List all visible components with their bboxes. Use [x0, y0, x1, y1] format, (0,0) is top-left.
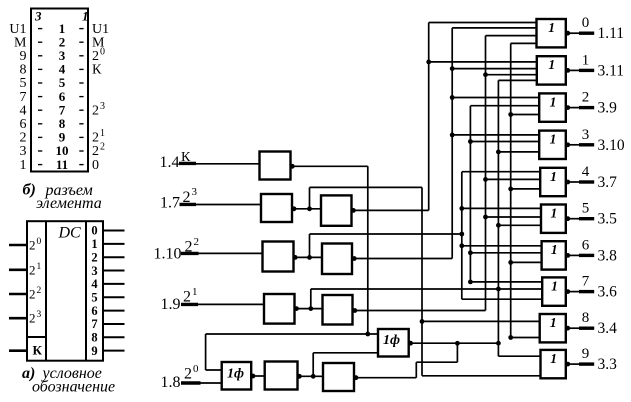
svg-text:3: 3	[37, 310, 42, 320]
svg-text:1: 1	[91, 237, 97, 251]
junction VA to gate G8 line	[420, 319, 425, 324]
svg-text:3.9: 3.9	[598, 100, 618, 117]
svg-text:9: 9	[582, 346, 590, 362]
wire V2 top to gate G0 input 2	[452, 27, 536, 29]
input K stub	[179, 162, 196, 165]
junction K-not onto bottom K line	[365, 332, 370, 337]
junction V4 gate G2	[508, 112, 513, 117]
wire C2 output to bus V2	[352, 258, 452, 260]
svg-text:1: 1	[192, 286, 198, 298]
wire V5 to gate G5 input 3	[498, 224, 541, 226]
wire V7 to gate G5 input 1	[462, 207, 541, 209]
gate F 1f	[378, 329, 409, 357]
svg-text:обозначение: обозначение	[32, 379, 115, 396]
svg-text:1: 1	[582, 52, 590, 68]
svg-text:2: 2	[29, 287, 36, 302]
svg-text:1: 1	[550, 169, 557, 184]
E2 output dot	[297, 374, 302, 379]
output 5 stub	[579, 217, 594, 220]
wire V7 bottom to gate G7 input 3	[462, 298, 542, 300]
DC input 2^3 stub	[9, 317, 27, 320]
svg-text:5: 5	[91, 290, 97, 304]
junction D1 out riser	[308, 306, 313, 311]
bus V7 vertical	[461, 172, 463, 300]
inverter D1 (2^1)	[264, 294, 295, 324]
junction V2 gate G3	[450, 133, 455, 138]
wire V4 to gate G6 input 3	[511, 261, 542, 263]
wire G6 output	[570, 254, 579, 256]
wire V4 top to gate G0 input 4	[511, 42, 537, 44]
output 2 stub	[579, 106, 594, 109]
wire B2 output to bus VB	[352, 209, 429, 211]
inverter B1 (2^3)	[261, 194, 292, 222]
wire V2 to gate G1 input 2	[452, 68, 537, 70]
svg-text:1: 1	[550, 315, 557, 330]
wire 2^1 input to D1	[198, 303, 264, 305]
svg-text:1.4: 1.4	[160, 154, 180, 171]
G1 output inversion dot	[565, 68, 570, 73]
svg-text:К: К	[33, 343, 43, 358]
junction V6 gate G3	[468, 139, 473, 144]
gate G8 (output 8)	[540, 314, 566, 342]
wire G1 output	[570, 69, 579, 71]
wire V3 to gate G1 input 3	[486, 74, 537, 76]
svg-text:3.3: 3.3	[598, 356, 618, 373]
svg-text:5: 5	[582, 201, 590, 217]
svg-text:4: 4	[582, 164, 590, 180]
svg-text:1: 1	[550, 351, 557, 366]
input 2^1 stub	[181, 303, 198, 306]
svg-text:1: 1	[551, 206, 558, 221]
junction V3 gate G5	[483, 215, 488, 220]
G3 output inversion dot	[565, 142, 570, 147]
wire E3 net riser 2	[456, 343, 458, 362]
svg-text:1.9: 1.9	[161, 296, 181, 313]
svg-text:2: 2	[184, 366, 192, 383]
svg-text:1: 1	[548, 20, 555, 35]
svg-text:3.10: 3.10	[598, 137, 625, 154]
B2 output dot	[351, 208, 356, 213]
junction V5 gate G3	[496, 150, 501, 155]
svg-text:0: 0	[91, 224, 97, 238]
junction on 2-1-not line at V5	[496, 287, 501, 292]
svg-text:1: 1	[551, 278, 558, 293]
inverter A1 (K)	[260, 152, 291, 180]
svg-text:7: 7	[582, 274, 590, 290]
bus VB vertical (2^3)	[428, 23, 430, 211]
svg-text:8: 8	[582, 310, 590, 326]
wire K line into E1 input 1	[206, 369, 222, 371]
output 8 stub	[579, 327, 594, 330]
wire G4 output	[570, 181, 579, 183]
wire E3 output run right	[354, 377, 416, 379]
svg-text:3: 3	[100, 101, 105, 112]
svg-text:1: 1	[550, 132, 557, 147]
inverter E3 (2^0 buffer)	[323, 363, 354, 391]
svg-text:1: 1	[82, 9, 89, 24]
gate G6 (output 6)	[542, 241, 566, 269]
G8 output inversion dot	[565, 326, 570, 331]
svg-text:1.8: 1.8	[161, 374, 181, 391]
G6 output inversion dot	[565, 253, 570, 258]
wire D1 output to D2	[295, 308, 323, 310]
DC input 2^0 stub	[9, 244, 27, 247]
E1 output dot	[251, 374, 256, 379]
svg-text:б): б)	[23, 182, 36, 199]
output 1 stub	[579, 69, 594, 72]
svg-text:1: 1	[20, 158, 27, 173]
wire V5 top to gate G1 input 4	[498, 79, 536, 81]
input 2^3 stub	[180, 203, 197, 206]
G2 output inversion dot	[565, 105, 570, 110]
wire E2 output to E3	[298, 375, 324, 377]
wire V6 to gate G6 input 2	[470, 252, 541, 254]
wire F output line to V5	[409, 342, 499, 344]
inverter E2 (2^0)	[265, 362, 298, 390]
svg-text:3.7: 3.7	[598, 174, 618, 191]
wire VB top to gate G0 input 1	[429, 22, 537, 24]
wire A1 output to K vertical	[291, 165, 368, 167]
wire 2-3-not riser	[309, 187, 311, 208]
wire V2 to gate G2 input 1	[452, 97, 539, 99]
wire V4 end to gate G8 input 2	[511, 337, 540, 339]
svg-text:3.5: 3.5	[598, 211, 618, 228]
svg-text:3: 3	[34, 9, 42, 24]
wire G5 output	[570, 218, 579, 220]
wire V3 top to gate G0 input 3	[486, 35, 537, 37]
B1 output dot	[292, 206, 297, 211]
junction 2-2-not onto V7	[459, 232, 464, 237]
bus V6 vertical	[469, 106, 471, 282]
wire V5 bottom to gate G9 input 1	[498, 355, 540, 357]
G4 output inversion dot	[565, 180, 570, 185]
bus V4 vertical	[510, 43, 512, 337]
gate G0 (output 0)	[537, 19, 566, 47]
svg-text:2: 2	[92, 103, 99, 118]
svg-text:3.4: 3.4	[598, 320, 618, 337]
gate G7 (output 7)	[542, 277, 566, 305]
wire E3 net jog right	[416, 361, 457, 363]
junction V3 gate G1	[483, 72, 488, 77]
DC right column divider	[85, 221, 87, 361]
inverter C1 (2^2)	[263, 242, 294, 272]
wire 2-1-not line to gate G7 input 2	[311, 288, 542, 290]
svg-text:1: 1	[100, 128, 105, 139]
svg-text:1.10: 1.10	[154, 246, 182, 263]
svg-text:9: 9	[91, 344, 97, 358]
junction V2 gate G1	[450, 66, 455, 71]
wire G7 output	[570, 291, 579, 293]
junction E2 out riser	[311, 374, 316, 379]
output 7 stub	[579, 290, 594, 293]
DC input 2^1 stub	[9, 268, 27, 271]
svg-text:7: 7	[91, 317, 97, 331]
wire G0 output	[570, 32, 579, 34]
svg-text:2: 2	[29, 238, 36, 253]
wire G2 output	[570, 107, 579, 109]
svg-text:3.8: 3.8	[598, 247, 618, 264]
inverter B2 (2^3 buffer)	[321, 195, 352, 225]
wire V7 to gate G6 input 1	[462, 245, 542, 247]
G7 output inversion dot	[565, 289, 570, 294]
junction V7 gate G5	[459, 206, 464, 211]
wire V4 to gate G4 input 3	[511, 188, 541, 190]
svg-text:0: 0	[193, 363, 199, 375]
wire V2 to gate G3 input 1	[452, 134, 539, 136]
svg-text:6: 6	[91, 304, 97, 318]
wire B1 output to B2	[292, 208, 321, 210]
junction V4 end gate G8	[508, 335, 513, 340]
wire V6 top to gate G2 input 2	[470, 105, 539, 107]
svg-text:1: 1	[550, 94, 557, 109]
junction V2 gate G2	[450, 95, 455, 100]
svg-text:1.7: 1.7	[160, 195, 180, 212]
G9 output inversion dot	[565, 362, 570, 367]
wire K line left corner vertical	[205, 334, 207, 370]
output 4 stub	[579, 180, 594, 183]
input 2^0 stub	[181, 381, 201, 384]
svg-text:2: 2	[29, 262, 36, 277]
junction E3 net onto F output line	[455, 341, 460, 346]
svg-text:8: 8	[91, 331, 97, 345]
wire V7 top to gate G4 input 1	[462, 171, 540, 173]
svg-text:2: 2	[91, 250, 97, 264]
wire V5 to gate G3 input 3	[498, 151, 539, 153]
junction V4 gate G4	[508, 187, 513, 192]
gate G1 (output 1)	[537, 56, 566, 84]
K compartment divider	[27, 336, 46, 338]
F output dot	[408, 341, 413, 346]
svg-text:К: К	[92, 63, 102, 78]
svg-text:0: 0	[37, 237, 42, 247]
wire V4 to gate G2 input 3	[511, 114, 540, 116]
wire G9 output	[570, 363, 579, 365]
A1 output dot	[290, 164, 295, 169]
gate G4 (output 4)	[540, 168, 566, 196]
D1 output dot	[294, 306, 299, 311]
wire 2-0 line to F input 2	[313, 352, 378, 354]
wire V6 end to gate G7 input 1	[470, 281, 542, 283]
gate E1 1f (K,2^0)	[222, 362, 252, 390]
wire V6 to gate G3 input 2	[470, 141, 539, 143]
junction V3 gate G4	[483, 177, 488, 182]
DC left column divider	[45, 221, 47, 361]
wire E3 net riser	[415, 362, 417, 378]
bus VA vertical (2-3-not)	[421, 187, 423, 375]
svg-text:1: 1	[548, 57, 555, 72]
junction V7 gate G6	[459, 243, 464, 248]
pin table border	[31, 9, 88, 172]
wire K input to inverter A1	[196, 163, 260, 165]
wire 2-3-not line to bus VA	[310, 186, 423, 188]
E3 output dot	[354, 375, 359, 380]
G5 output inversion dot	[565, 216, 570, 221]
wire 2^3 input to B1	[196, 204, 261, 206]
svg-text:11: 11	[56, 157, 68, 172]
wire 2^0 input to E1	[201, 382, 222, 384]
svg-text:DC: DC	[58, 225, 82, 242]
svg-text:1: 1	[37, 262, 42, 272]
gate G9 (output 9)	[541, 350, 566, 378]
svg-text:3: 3	[192, 186, 198, 198]
output 0 stub	[579, 32, 594, 35]
inverter C2 (2^2 buffer)	[322, 244, 352, 275]
output 6 stub	[579, 254, 594, 257]
output 3 stub	[579, 143, 594, 146]
junction V4 gate G6	[508, 260, 513, 265]
junction F line onto V5	[496, 341, 501, 346]
svg-text:1ф: 1ф	[383, 333, 400, 348]
junction VB gate G1	[426, 60, 431, 65]
D2 output dot	[352, 308, 357, 313]
svg-text:3: 3	[582, 127, 590, 143]
bus V5 vertical	[497, 80, 499, 356]
gate G3 (output 3)	[539, 131, 566, 159]
DC input K stub	[9, 349, 27, 352]
DC input 2^2 stub	[9, 293, 27, 296]
wire 2-2-not line to bus V7	[310, 233, 462, 235]
wire 2-1-not riser	[310, 289, 312, 309]
junction V5 gate G5	[496, 223, 501, 228]
svg-text:2: 2	[194, 236, 200, 248]
wire 2^2 input to C1	[199, 252, 263, 254]
output 9 stub	[579, 362, 594, 365]
bus V3 vertical	[485, 36, 487, 311]
svg-text:6: 6	[582, 237, 590, 253]
wire D2 output to bus V3 bottom	[353, 310, 486, 312]
svg-text:2: 2	[29, 311, 36, 326]
wire K bottom line	[206, 333, 378, 335]
svg-text:2: 2	[582, 90, 590, 106]
inverter D2 (2^1 buffer)	[323, 295, 353, 325]
junction V6 gate G6	[468, 250, 473, 255]
wire G3 output	[570, 144, 579, 146]
junction C1 out riser	[307, 255, 312, 260]
svg-text:0: 0	[582, 15, 590, 31]
svg-text:0: 0	[100, 47, 105, 58]
svg-text:1ф: 1ф	[227, 367, 244, 382]
C1 output dot	[293, 255, 298, 260]
wire 2-2-not riser	[309, 234, 311, 257]
wire VA bottom to gate G9 input 3	[422, 375, 541, 377]
input 2^2 stub	[181, 252, 199, 255]
junction B1 out riser	[307, 206, 312, 211]
svg-text:элемента: элемента	[36, 195, 102, 212]
wire VA branch to gate G8 input 1	[422, 320, 540, 322]
bus V2 vertical (2^2)	[451, 28, 453, 259]
wire 2-0 riser	[312, 353, 314, 377]
wire C1 output to C2	[294, 256, 323, 258]
wire V3 to gate G5 input 2	[486, 216, 542, 218]
wire G8 output	[570, 327, 579, 329]
svg-text:2: 2	[37, 286, 42, 296]
svg-text:3.11: 3.11	[598, 62, 625, 79]
G0 output inversion dot	[565, 31, 570, 36]
gate G2 (output 2)	[539, 93, 566, 121]
wire K-not vertical bus	[367, 166, 369, 334]
C2 output dot	[352, 256, 357, 261]
svg-text:2: 2	[100, 142, 105, 153]
svg-text:0: 0	[92, 158, 99, 173]
wire E1 output to E2	[251, 375, 265, 377]
wire V3 to gate G4 input 2	[486, 178, 541, 180]
DC decoder symbol box	[27, 221, 103, 361]
wire VB to gate G1 input 1	[429, 61, 537, 63]
junction V6 end gate G7	[468, 280, 473, 285]
svg-text:4: 4	[91, 277, 98, 291]
svg-text:1: 1	[551, 242, 558, 257]
gate G5 (output 5)	[541, 205, 566, 233]
svg-text:1.11: 1.11	[598, 25, 625, 42]
svg-text:3.6: 3.6	[598, 284, 618, 301]
svg-text:3: 3	[91, 264, 97, 278]
